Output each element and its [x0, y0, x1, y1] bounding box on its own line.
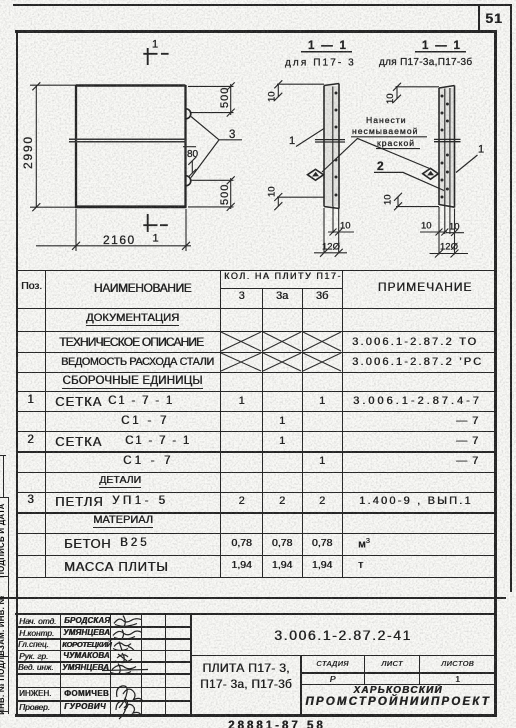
signature 5	[102, 664, 148, 675]
main frame top	[15, 30, 497, 33]
col line 3a/3b	[302, 288, 303, 577]
left strip rotated texts	[0, 503, 6, 577]
cross row3 col3	[221, 353, 261, 371]
svg-text:2990: 2990	[21, 135, 35, 169]
row line 5	[16, 411, 495, 412]
svg-text:500: 500	[219, 87, 231, 108]
row line 12	[16, 555, 495, 556]
row line 4	[16, 391, 495, 392]
tb doc number cell bottom	[190, 655, 495, 657]
svg-text:12Ø: 12Ø	[440, 242, 459, 253]
cross row2 col3	[221, 332, 261, 351]
top page edge line	[13, 4, 512, 6]
col line 3b/note	[342, 270, 344, 577]
sheet number 51	[482, 11, 506, 25]
tb names	[64, 617, 110, 625]
title block top line	[15, 613, 497, 615]
row line 7	[16, 451, 495, 452]
row line 2	[16, 352, 495, 353]
svg-text:1 — 1: 1 — 1	[422, 40, 462, 52]
tb document number	[191, 628, 495, 642]
svg-text:для П17-3а,П17-3б: для П17-3а,П17-3б	[379, 56, 472, 68]
sheet number box divider	[478, 5, 480, 32]
tb row lines left part	[16, 626, 191, 627]
signature 3	[113, 642, 134, 651]
svg-text:несмываемой: несмываемой	[352, 126, 418, 136]
signature 4	[115, 653, 132, 663]
row line 10	[16, 512, 495, 513]
svg-text:Нанести: Нанести	[366, 115, 407, 125]
section 1 body	[324, 84, 339, 209]
section mark top	[143, 48, 168, 65]
section 2 paint diamond	[423, 168, 439, 179]
svg-text:1: 1	[289, 135, 295, 147]
main frame bottom	[15, 714, 497, 717]
svg-text:80: 80	[187, 149, 199, 160]
row line 3	[16, 372, 495, 373]
section 1 rebar dots	[335, 92, 338, 197]
main frame left	[16, 30, 19, 717]
separator line above title block	[0, 597, 506, 599]
section 1 dim 10 top	[274, 80, 324, 100]
row line 11	[16, 533, 495, 534]
header split line	[220, 288, 342, 289]
section 2 bottom extensions	[439, 205, 455, 255]
svg-text:10: 10	[267, 186, 278, 197]
col line name/qty	[220, 270, 222, 577]
svg-text:для П17- 3: для П17- 3	[285, 58, 356, 69]
signature 1	[114, 616, 141, 627]
tb vertical name/stamp	[300, 655, 302, 714]
table top line	[16, 270, 495, 272]
lifting loop top	[186, 109, 191, 119]
svg-text:10: 10	[421, 221, 432, 232]
svg-text:1: 1	[152, 39, 158, 51]
section 2 body	[439, 86, 455, 208]
svg-text:10: 10	[267, 91, 278, 102]
signature 7	[116, 701, 141, 719]
section 2 smudge fill	[440, 88, 455, 204]
LEFT MARGIN STRIP	[8, 497, 9, 714]
tb role labels	[19, 617, 56, 625]
tb stadia row lines	[301, 672, 495, 673]
cross row2 col3a	[263, 332, 301, 351]
col line pos	[45, 270, 47, 577]
plan mid double line	[69, 139, 186, 142]
tb stadia header	[301, 660, 364, 667]
dimension 2160	[36, 209, 191, 251]
tb vertical lines	[60, 613, 61, 714]
signature 6	[117, 686, 143, 710]
dimension 500 bottom	[188, 176, 235, 211]
svg-text:3: 3	[229, 129, 235, 141]
svg-text:краской: краской	[377, 138, 415, 148]
svg-text:1 — 1: 1 — 1	[308, 40, 348, 52]
section 2 dim 10 top	[393, 83, 439, 103]
svg-text:1: 1	[153, 233, 159, 245]
svg-text:1: 1	[478, 144, 484, 156]
TABLE BODY TEXT	[46, 313, 219, 324]
cross row3 col3a	[263, 353, 301, 371]
svg-text:2160: 2160	[103, 233, 136, 247]
tb plate name	[191, 662, 301, 674]
svg-text:500: 500	[219, 184, 231, 205]
note column values	[352, 337, 478, 348]
signature 2	[113, 630, 142, 640]
section 1 paint diamond	[308, 169, 324, 180]
section 1 dim 10 bottom	[274, 193, 324, 210]
section 1 bottom extensions	[324, 206, 339, 253]
dimension 500 top	[188, 82, 235, 116]
main frame right	[494, 30, 497, 717]
svg-text:10: 10	[385, 93, 396, 104]
svg-text:10: 10	[383, 194, 394, 205]
row line 8	[16, 472, 495, 473]
svg-text:12Ø: 12Ø	[322, 242, 341, 253]
svg-text:10: 10	[449, 222, 460, 233]
outer right page line	[510, 5, 512, 592]
TABLE HEADER TEXT	[19, 281, 44, 292]
bottom clipped stamp text	[228, 721, 326, 728]
tb signatures	[0, 600, 516, 728]
cross row2 col3b	[303, 332, 341, 351]
row line 6	[16, 431, 495, 432]
dimension 2990	[30, 82, 76, 211]
section 2 dim 10 bottom	[394, 193, 439, 211]
col line 3/3a	[262, 288, 263, 577]
plan view plate outline	[76, 84, 186, 86]
section 2 rebar dots	[441, 95, 449, 199]
leader to pos 3	[191, 117, 219, 178]
svg-text:2: 2	[377, 159, 384, 173]
section 1 mid cut line	[315, 140, 345, 142]
paint note leaders	[322, 139, 432, 173]
row line 1	[16, 331, 495, 332]
tb organization	[301, 686, 495, 696]
section mark bottom	[143, 214, 168, 232]
quantity values	[222, 396, 261, 407]
header bottom line	[16, 308, 495, 310]
DRAWING AREA	[0, 0, 516, 268]
section 2 mid cut line	[434, 139, 461, 141]
lifting loop bottom	[186, 176, 191, 186]
section 1 smudge fill	[325, 86, 339, 206]
table bottom line	[16, 577, 495, 579]
row line 9	[16, 492, 495, 493]
cross row3 col3b	[303, 353, 341, 371]
